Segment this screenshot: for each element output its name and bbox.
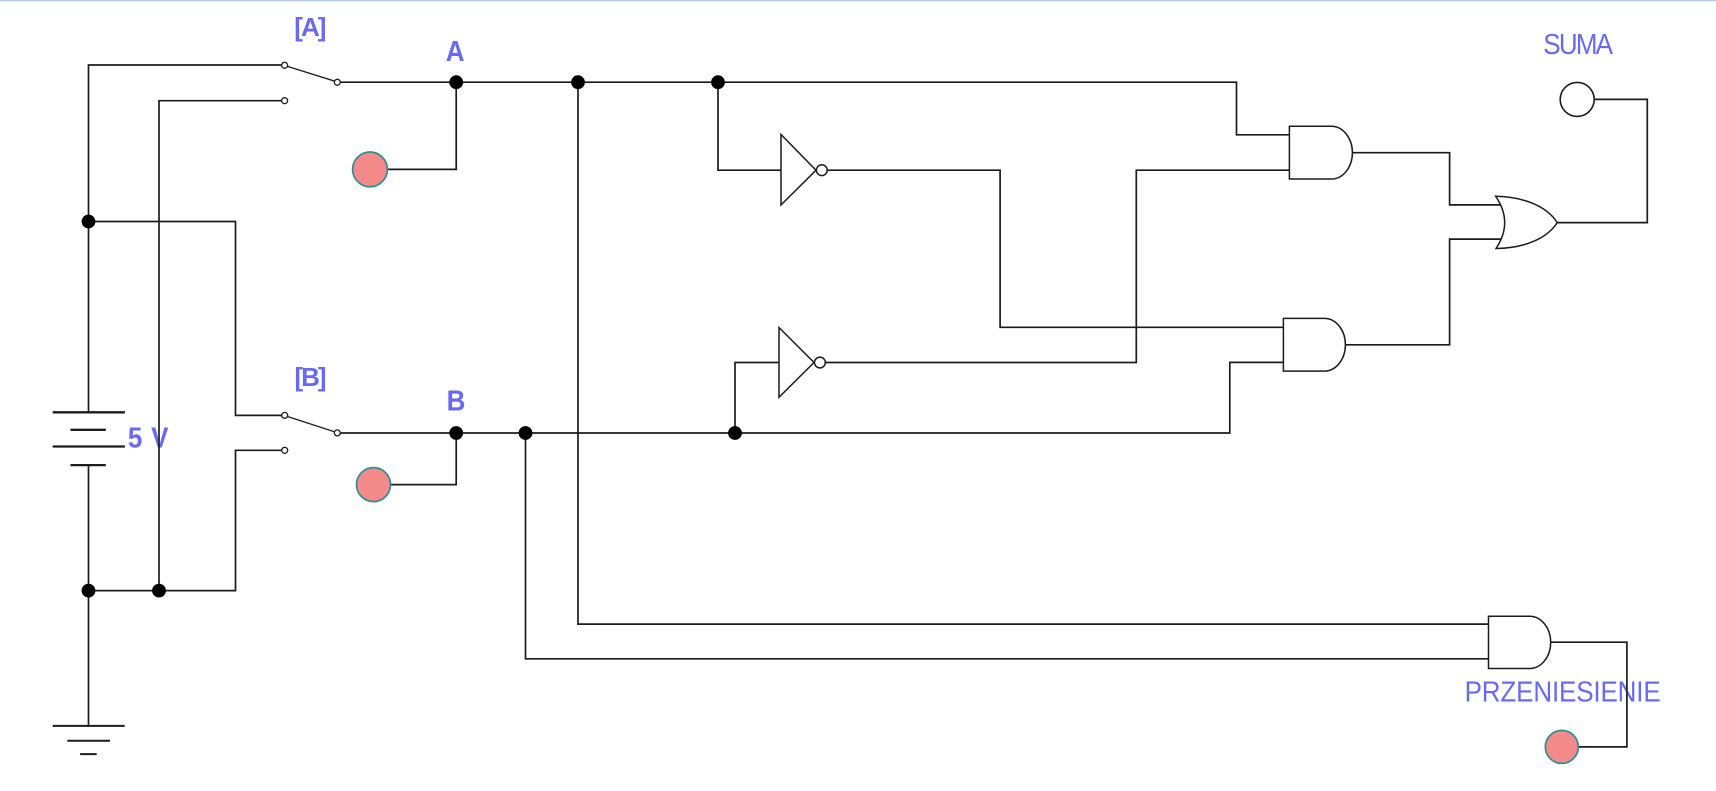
svg-text:PRZENIESIENIE: PRZENIESIENIE — [1465, 675, 1661, 707]
junction A to NOT1 — [711, 75, 725, 89]
svg-text:[A]: [A] — [294, 12, 325, 42]
junction A to AND3 — [571, 75, 585, 89]
wire OR output to probe SUMA — [1557, 99, 1647, 222]
top window edge bar — [0, 0, 1716, 1]
junction +5V branch — [82, 215, 96, 229]
wire NOT2 output to AND1 input2 — [826, 170, 1289, 362]
wire node A to NOT1 input — [718, 82, 781, 170]
wire node B to NOT2 input — [735, 363, 779, 434]
battery V1 — [53, 412, 125, 465]
probe B (lamp, on) — [357, 468, 391, 502]
svg-text:5 V: 5 V — [128, 421, 169, 453]
wire ground rail to switch B throw2 — [89, 450, 282, 590]
wire AND1 output to OR input1 — [1352, 153, 1505, 205]
switch S2 [B] contacts — [282, 412, 341, 453]
svg-text:[B]: [B] — [295, 362, 326, 392]
wire NOT1 output to AND2 input1 — [828, 170, 1284, 327]
svg-text:A: A — [446, 35, 465, 67]
ground — [53, 726, 125, 754]
wire +5V branch to switch B throw1 — [89, 222, 282, 416]
switch S1 arm — [288, 66, 335, 81]
inverter NOT1 — [781, 135, 827, 206]
switch S1 [A] contacts — [282, 62, 341, 103]
node B junction — [449, 426, 463, 440]
wire battery bottom to ground — [88, 465, 90, 726]
probe SUMA (lamp, off) — [1560, 82, 1594, 116]
and-gate U4 (carry) — [1489, 616, 1551, 668]
svg-text:SUMA: SUMA — [1543, 28, 1613, 60]
wire net A rail to AND1 input1 — [341, 82, 1290, 135]
probe PRZENIESIENIE (lamp, on) — [1545, 730, 1578, 763]
and-gate U1 — [1289, 126, 1352, 179]
wire node A to AND3 input1 — [578, 82, 1489, 624]
junction B to NOT2 — [728, 426, 742, 440]
wire net B rail to AND2 input2 — [341, 362, 1284, 433]
junction B to AND3 — [519, 426, 533, 440]
or-gate U3 — [1496, 196, 1558, 248]
wire probe B to node B — [391, 433, 457, 485]
inverter NOT2 — [779, 328, 825, 398]
and-gate U2 — [1283, 318, 1345, 371]
wire node B to AND3 input2 — [526, 433, 1489, 659]
svg-text:B: B — [447, 384, 466, 416]
wire switch A throw2 to ground rail — [159, 101, 281, 591]
switch S2 arm — [288, 417, 335, 432]
wire AND3 output to probe PRZENIESIENIE — [1551, 642, 1627, 747]
junction ground rail at switch A return — [152, 584, 166, 598]
wire +5V rail: battery top to switch A throw1 — [89, 65, 282, 412]
node A junction — [449, 75, 463, 89]
wire AND2 output to OR input2 — [1345, 239, 1505, 345]
junction ground rail at battery — [82, 584, 96, 598]
wire probe A to node A — [388, 82, 457, 169]
probe A (lamp, on) — [353, 152, 388, 187]
